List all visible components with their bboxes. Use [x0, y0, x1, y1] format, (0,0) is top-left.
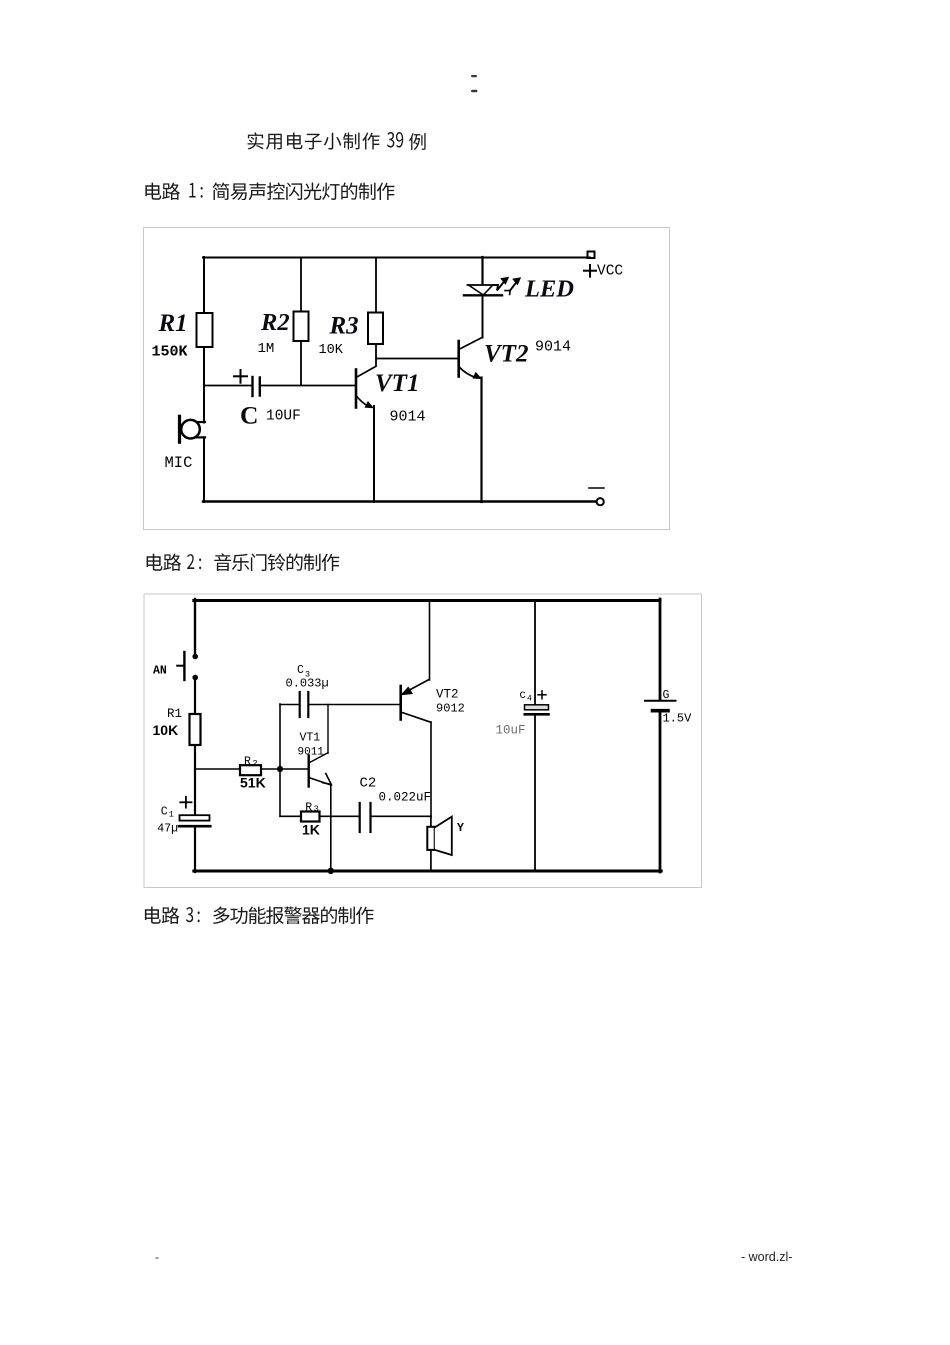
svg-text:LED: LED — [524, 276, 574, 303]
svg-text:C: C — [520, 690, 526, 702]
transistor VT2 — [401, 680, 431, 723]
svg-text:10K: 10K — [319, 343, 344, 358]
label minus — [589, 487, 604, 489]
wire base feed — [195, 768, 308, 770]
svg-text:C: C — [161, 806, 168, 819]
wire top VCC rail — [203, 257, 590, 259]
svg-text:R3: R3 — [329, 313, 359, 340]
svg-text:VT1: VT1 — [300, 732, 321, 745]
footer left dash — [155, 1250, 159, 1264]
svg-text:2: 2 — [253, 758, 258, 768]
footer right text — [741, 1250, 792, 1264]
svg-text:AN: AN — [153, 665, 167, 678]
wire left rail lower — [203, 437, 205, 502]
svg-text:R2: R2 — [260, 309, 290, 336]
terminal ground circle — [597, 498, 604, 505]
transistor VT1 — [309, 753, 332, 787]
capacitor C2 plates — [360, 803, 371, 832]
capacitor C1 plates — [179, 815, 210, 826]
wire left rail below switch — [194, 678, 196, 816]
svg-text:R: R — [305, 801, 312, 814]
svg-text:9014: 9014 — [390, 409, 426, 426]
wire VT2 emitter down — [480, 378, 482, 503]
wire bottom rail — [194, 870, 661, 873]
wire VT1 collector to VT2 base — [376, 358, 458, 360]
svg-text:3: 3 — [314, 804, 319, 814]
svg-text:Y: Y — [457, 822, 464, 835]
resistor R1 — [190, 714, 201, 745]
wire R3 row — [280, 815, 358, 817]
label C1 — [161, 806, 174, 820]
figure frame circuit 2 — [144, 594, 702, 888]
wire LED anode — [481, 257, 483, 284]
transistor VT2 — [459, 338, 482, 379]
resistor R2 — [294, 312, 309, 342]
svg-text:0.022uF: 0.022uF — [379, 791, 432, 805]
capacitor C plates — [253, 377, 260, 396]
LED emission arrows — [493, 277, 521, 294]
capacitor C3 plates — [300, 692, 309, 717]
svg-text:G: G — [663, 689, 670, 702]
switch AN — [177, 652, 198, 680]
capacitor C plus sign — [234, 370, 247, 383]
wire C4 branch lower — [534, 716, 536, 871]
svg-text:9014: 9014 — [535, 339, 571, 356]
wire VT2 collector up — [482, 296, 484, 338]
svg-text:9011: 9011 — [298, 747, 325, 759]
svg-text:VT2: VT2 — [484, 341, 528, 368]
LED diode symbol — [464, 285, 502, 295]
svg-text:VT1: VT1 — [375, 370, 419, 397]
svg-text:C: C — [297, 664, 304, 677]
wire battery branch upper — [659, 599, 662, 700]
figure frame circuit 1 — [144, 228, 670, 530]
page mark dash 1 — [471, 75, 477, 77]
svg-text:1M: 1M — [258, 341, 275, 357]
wire VT1 collector up — [327, 705, 329, 754]
capacitor C4 plates — [525, 705, 549, 715]
wire VT1 emitter down — [330, 785, 332, 871]
label R2 — [244, 755, 258, 768]
wire mic to capacitor — [204, 385, 251, 387]
svg-text:47µ: 47µ — [157, 822, 178, 835]
wire battery branch lower — [659, 711, 662, 873]
svg-text:MIC: MIC — [165, 454, 193, 472]
resistor R1 — [197, 313, 213, 347]
terminal VCC — [588, 252, 595, 259]
wire left rail — [203, 257, 205, 423]
wire left rail upper — [194, 599, 196, 655]
microphone MIC — [180, 416, 206, 442]
svg-text:VT2: VT2 — [436, 688, 459, 702]
wire C4 branch upper — [534, 600, 536, 705]
wire VT2 collector down — [430, 722, 432, 817]
label C4 plus — [538, 691, 546, 699]
label C3 — [297, 664, 310, 680]
svg-text:10uF: 10uF — [496, 724, 526, 738]
svg-text:51K: 51K — [240, 775, 266, 791]
svg-text:1.5V: 1.5V — [663, 712, 693, 726]
svg-text:10K: 10K — [153, 722, 179, 738]
svg-text:1: 1 — [169, 810, 174, 820]
wire bottom rail — [203, 500, 596, 502]
speaker Y — [427, 816, 452, 871]
svg-text:0.033µ: 0.033µ — [286, 677, 329, 691]
wire left rail lower — [194, 827, 196, 872]
svg-text:R: R — [244, 755, 251, 768]
svg-text:C: C — [240, 401, 258, 430]
capacitor C1 plus — [180, 797, 191, 808]
junction dot emitter ground — [328, 868, 334, 874]
svg-text:9012: 9012 — [436, 702, 465, 716]
svg-text:10UF: 10UF — [266, 409, 301, 425]
svg-text:R1: R1 — [167, 707, 182, 721]
svg-text:150K: 150K — [152, 344, 188, 361]
svg-text:C2: C2 — [360, 776, 377, 792]
wire VT1 emitter down — [373, 406, 375, 502]
svg-text:VCC: VCC — [597, 264, 623, 280]
page mark dash 2 — [471, 90, 478, 92]
svg-text:1K: 1K — [302, 822, 320, 838]
wire C3 left lead — [280, 704, 298, 706]
wire R3 branch — [375, 258, 377, 367]
wire R2 branch — [300, 258, 302, 386]
svg-text:R1: R1 — [158, 310, 188, 337]
transistor VT1 — [356, 367, 376, 408]
wire capacitor to VT1 base — [261, 385, 355, 387]
label C4 — [520, 690, 533, 704]
label +VCC — [584, 264, 623, 280]
label R3 — [305, 801, 319, 814]
wire top rail — [194, 599, 660, 602]
wire C3 branch vertical — [279, 704, 281, 816]
battery G plates — [645, 701, 676, 711]
junction dot base node — [277, 766, 283, 772]
wire VT2 emitter up — [429, 600, 431, 680]
svg-text:4: 4 — [527, 695, 532, 704]
wire C3 to VT2 base — [310, 704, 401, 706]
resistor R3 — [368, 313, 383, 345]
wire C2 to speaker — [372, 815, 432, 817]
resistor R3 1K — [301, 812, 320, 822]
resistor R2 51K — [240, 765, 261, 775]
